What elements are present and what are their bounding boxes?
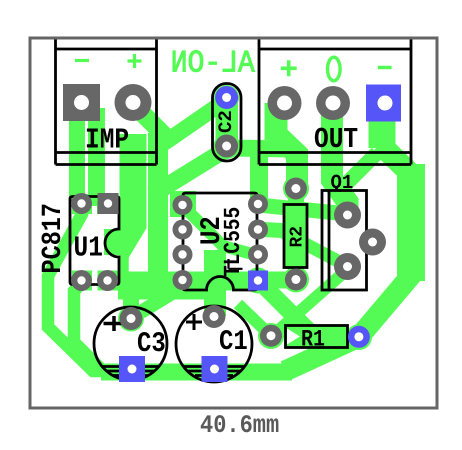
hole Q1 p3 [343,262,352,271]
pad Q1 pin1 [334,202,361,229]
hole IMP pin2 [126,95,141,110]
svg-text:C3: C3 [137,329,166,361]
wire right vertical to R1 blue pad diagonal [359,272,414,337]
node R2 top pad backing [283,176,309,202]
connector OUT minus sign [378,66,392,70]
hole U2 r1 [254,200,262,208]
pad U2 right row1 [248,194,268,214]
wire OUT- pad down [369,103,396,148]
pad IMP square pin 1 [63,84,100,121]
wire OUT- diagonal to right bar [380,144,415,178]
pad R2 bottom [285,269,307,291]
svg-text:AL-ON: AL-ON [171,47,255,82]
hole U2 r3 [254,250,262,258]
hole C1 plus [210,312,219,321]
wire X1 narrow column to band [119,250,129,283]
resistor R2 green fill [285,206,306,267]
svg-text:PC817: PC817 [38,203,70,274]
hole U1 bl [77,276,85,284]
capacitor C3 polarity stripes [102,365,159,368]
hole R1 left [267,331,276,340]
wire U1 top-left pad elbow E1 to C3 blue pad [48,208,128,371]
hole OUT pin2 [326,96,341,111]
capacitor C1 polarity stripes [184,365,244,368]
pad C3 plus [120,307,143,330]
hole C3 minus [128,365,137,374]
node C3 plus pad backing [118,306,144,332]
pad U2 left row4 [173,270,193,290]
pad Q1 pin3 [334,253,361,280]
hole C1 minus [210,365,219,374]
op-amp U2 outline (TLC555) [183,193,257,290]
pad C2 bottom [215,135,238,158]
pad IMP round pin 2 [115,84,152,121]
pad U2 left row1 [173,195,193,215]
hole U2 r2 [254,225,262,233]
wire IMP+ round pad diagonal [133,104,170,141]
wire band down to C3 plus pad [123,285,139,316]
connector IMP plus sign [128,54,142,68]
svg-text:TLC555: TLC555 [220,207,246,277]
wire bottom band diagonal up right [285,337,359,371]
pad U1 bottom-left [71,270,92,291]
wire X2 vertical to U2 pin1 area [148,133,168,282]
node U2 left row1 pad backing [170,191,196,217]
hole U2 l4 [178,276,186,284]
wire OUT O pad2 down to Q1 pad1 [332,103,348,215]
pad C3 minus blue square [119,356,145,382]
pad C2 top blue [215,86,238,109]
wire U2 right row1 to R2 top to Q1 pad1 [258,205,348,214]
wire right wide vertical [397,164,425,281]
svg-text:Q1: Q1 [331,171,354,194]
hole U1 br [103,276,111,284]
resistor R1 outline [286,326,348,348]
wire U1 bottom-left pad down E2 [74,283,105,373]
svg-text:40.6mm: 40.6mm [200,411,279,440]
wire junction diagonal up to C2 blue pad [164,103,222,143]
connector IMP outline [56,40,157,165]
resistor R1 arrow [287,329,300,345]
wire C1 area to R1 left pad diagonal [238,304,271,336]
op-amp U1 outline (PC817) [70,197,119,285]
wire stub down to U2 right pin row1 [250,155,268,202]
pad U2 right row4 blue square [248,271,268,291]
hole C3 plus [127,314,136,323]
connector OUT O mark [328,57,341,81]
pad R1 right blue [348,326,370,348]
hole C2 bottom [222,142,231,151]
hole U2 l3 [178,250,186,258]
connector IMP minus sign [75,59,89,62]
hole OUT pin1 [277,96,292,111]
op-amp U2 pin 1 mark [229,259,243,269]
node R2 bottom pad backing [283,267,309,293]
svg-text:U1: U1 [74,233,103,265]
hole R2 bottom [291,275,300,284]
pad U1 top-left [71,193,92,214]
wire band under C2 gray pad to OUT+ elbow [152,148,290,195]
transistor Q1 outline [322,191,367,291]
pad U2 right row2 [248,220,268,240]
pad OUT pin 2 [316,86,350,120]
hole C2 top [222,93,231,102]
hole R2 top [291,184,300,193]
connector OUT outline [259,40,411,165]
pad U1 square top-right [98,193,119,214]
node R1 left pad backing [258,323,284,349]
wire OUT+ pad1 down to R2 top pad [265,103,288,140]
hole OUT pin3 [378,96,393,111]
hole U2 r4 [254,276,262,284]
pad U2 right row3 [248,245,268,265]
pad R2 top [285,178,307,200]
capacitor C1 outline [176,306,252,382]
node R1 right pad backing [346,324,372,350]
wire U2 right row2 to Q1 pad3 [262,230,283,231]
node C2 gray pad backing [214,133,240,159]
svg-text:R1: R1 [301,327,325,354]
hole Q1 p2 [368,238,377,247]
pad U2 left row2 [173,220,193,240]
wire IMP- square pad column B to U1 square pad [88,108,105,206]
pad R1 left [260,325,282,347]
wire IMP- square pad column A to U1 pin top-left [69,108,85,206]
pad U2 left row3 [173,245,193,265]
wire U2 internal diagonal pin1 to right row3 [183,206,256,255]
svg-text:C1: C1 [219,327,248,359]
wire C1 top pad feed [204,250,226,316]
svg-text:R2: R2 [288,226,308,248]
pad Q1 pin2 [359,229,386,256]
hole U2 l2 [178,225,186,233]
capacitor C3 plus sign [104,316,125,331]
pad C1 minus blue square [202,356,228,382]
wire Q1 pad3 to R1 left pad diagonal [272,267,350,336]
node C2 blue pad backing [214,85,239,110]
pad OUT pin 3 blue square [366,85,401,122]
hole R1 right [354,332,363,341]
node U1 pad backings [72,194,92,214]
wire U2 bottom band lower run [118,283,226,300]
svg-text:OUT: OUT [314,125,358,157]
svg-text:C2: C2 [215,110,237,133]
hole U2 l1 [178,201,186,209]
capacitor C3 outline [94,307,167,380]
hole IMP pin1 [74,95,89,110]
hole U1 tl [77,199,85,207]
svg-text:IMP: IMP [85,125,129,157]
board frame [30,38,437,408]
wire U2 blue pad to R2 bottom pad [258,272,296,289]
hole U1 tr [104,199,112,207]
wire diagonal to C3 plus pad [141,285,185,312]
node U2 blue pad backing [245,268,271,294]
wire IMP+ round pad column X1 down (wide part) [120,134,147,228]
wire U2 bottom band [114,272,258,291]
pad U1 bottom-right [97,270,118,291]
wire U1 notch interior fill [104,229,120,255]
pad C1 plus [203,305,226,328]
capacitor C1 plus sign [186,314,202,330]
wire R2 vertical under box [288,192,304,280]
connector OUT plus sign [281,60,297,76]
wire U2 blue pad wide diagonal to R1 [258,280,322,344]
wire OUT- diagonal down-left to Q1 pad1 [345,153,377,185]
hole Q1 p1 [343,211,352,220]
wire bottom ground band [101,364,292,381]
resistor R2 outline [284,205,307,268]
resistor R1 green fill [287,327,347,347]
wire C2 interior link [216,92,239,152]
pad OUT pin 1 [268,86,302,120]
capacitor C2 outline [213,84,242,162]
wire X1 taper [120,228,147,258]
